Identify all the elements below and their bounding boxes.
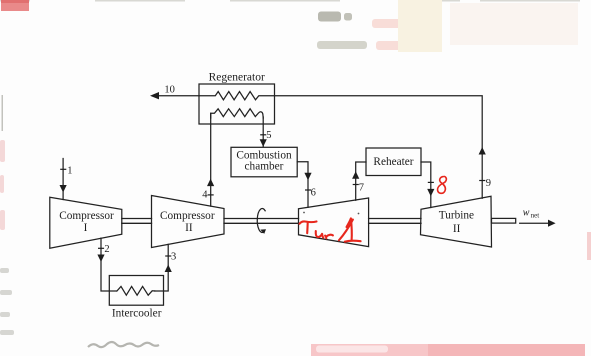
watermark left edge faint pink dashes	[0, 140, 5, 230]
svg-text:9: 9	[486, 178, 491, 189]
arrowhead 1 down	[60, 185, 67, 193]
watermark left edge gray line	[2, 95, 4, 131]
compressor II trapezoid	[152, 196, 225, 248]
watermark left edge faint gray dashes	[0, 268, 14, 335]
watermark top edge dashed gray line	[0, 0, 580, 2]
svg-text:2: 2	[104, 244, 109, 255]
svg-text:Compressor: Compressor	[59, 210, 114, 222]
reheater box	[366, 148, 421, 176]
svg-text:II: II	[185, 222, 193, 234]
svg-text:Intercooler: Intercooler	[112, 307, 162, 319]
watermark red box top-left	[1, 0, 29, 11]
svg-text:II: II	[453, 223, 461, 235]
wire: state 4 vertical (regenerator to compressor II)	[210, 113, 212, 206]
arrowhead 6 down	[304, 173, 311, 181]
tick 5	[260, 134, 266, 136]
shaft rotation curl	[257, 208, 265, 232]
tick 1	[60, 168, 66, 170]
regenerator box	[199, 84, 275, 124]
watermark faint text top-middle row2	[317, 41, 367, 49]
tick 8	[428, 181, 434, 183]
arrowhead of rotation curl	[260, 229, 266, 234]
output shaft of turbine II	[492, 218, 516, 223]
svg-text:1: 1	[67, 166, 72, 177]
arrowhead 7 up	[352, 171, 359, 179]
arrowhead 4 up	[207, 179, 214, 187]
shaft turbine 1 - turbine II	[369, 218, 421, 220]
wire: state 8 (reheater to turbine II)	[421, 162, 431, 208]
combustion chamber box	[231, 147, 297, 177]
svg-text:10: 10	[164, 85, 175, 96]
watermark faint dark text top-middle row1	[318, 12, 341, 22]
svg-text:Reheater: Reheater	[373, 156, 413, 168]
shaft compressor II - turbine 1	[224, 218, 299, 220]
arrowhead 10 left	[150, 92, 159, 99]
arrowhead 3 up	[165, 265, 172, 273]
svg-text:5: 5	[266, 130, 271, 141]
svg-text:w: w	[523, 208, 530, 219]
intercooler zigzag	[117, 286, 155, 295]
arrowhead w_net right	[548, 220, 556, 227]
svg-text:chamber: chamber	[245, 161, 284, 173]
svg-text:Regenerator: Regenerator	[209, 72, 265, 84]
tick 2	[98, 247, 104, 249]
tick marks	[60, 135, 485, 256]
arrowheads	[60, 92, 556, 272]
wire: state 3 (intercooler to compressor II)	[155, 244, 169, 291]
svg-text:7: 7	[359, 182, 364, 193]
wire: state 1 inlet	[62, 159, 64, 200]
watermark bottom-left gray handwriting	[88, 342, 159, 347]
red handwriting 8	[438, 176, 447, 193]
watermark bottom pink bar	[311, 344, 585, 356]
wire: state 5 vertical (regenerator to combustion chamber)	[262, 117, 264, 147]
svg-text:3: 3	[171, 252, 176, 263]
wire: state 2 (compressor I to intercooler)	[101, 238, 117, 291]
svg-text:6: 6	[311, 188, 316, 199]
svg-text:Compressor: Compressor	[160, 210, 215, 222]
arrowhead 2 down	[97, 255, 104, 263]
wire: state 6 (combustion chamber to turbine 1)	[297, 162, 308, 208]
intercooler box	[109, 276, 163, 306]
watermark light block top-right	[450, 3, 578, 45]
compressor I trapezoid	[50, 197, 122, 248]
wire: 10 line left of regenerator	[156, 95, 199, 97]
svg-text:Combustion: Combustion	[236, 149, 292, 161]
erased dots in turbine 1	[303, 212, 305, 214]
arrowhead 8 down	[427, 189, 434, 197]
tick 4	[208, 194, 214, 196]
watermark right edge pink dash	[587, 232, 591, 260]
turbine II trapezoid	[421, 196, 492, 247]
tick 7	[353, 184, 359, 186]
regenerator lower zigzag	[211, 109, 264, 118]
shaft compressor I - compressor II	[122, 218, 152, 220]
svg-text:I: I	[84, 222, 88, 234]
red handwriting Tur 1	[300, 218, 361, 241]
regenerator upper zigzag	[199, 92, 275, 100]
turbine 1 trapezoid	[299, 198, 369, 247]
wire: long top line to right	[275, 96, 483, 199]
arrowhead 5 down	[260, 139, 267, 147]
svg-text:Turbine: Turbine	[439, 210, 474, 222]
arrowhead 9 up	[479, 147, 486, 155]
watermark cream box	[398, 0, 442, 52]
svg-text:4: 4	[202, 190, 208, 201]
tick 9	[479, 180, 485, 182]
tick 6	[305, 189, 311, 191]
watermark salmon arabic text right of middle	[372, 19, 414, 50]
wire: state 7 (turbine 1 to reheater)	[356, 162, 366, 200]
svg-text:net: net	[531, 212, 540, 220]
watermark pale text on pink bar	[316, 346, 388, 353]
tick 3	[165, 255, 171, 257]
w_net arrow line	[520, 222, 553, 224]
